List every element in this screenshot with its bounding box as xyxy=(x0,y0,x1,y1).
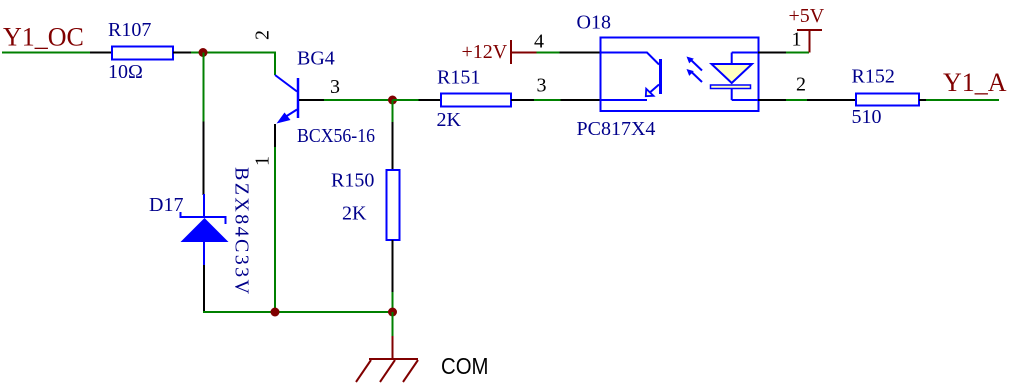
junction emitter-rail xyxy=(271,308,280,317)
resistor R152 xyxy=(856,94,919,106)
svg-text:2: 2 xyxy=(252,30,274,40)
svg-text:BG4: BG4 xyxy=(297,48,335,70)
svg-text:Y1_OC: Y1_OC xyxy=(3,23,84,52)
resistor R151 xyxy=(441,94,511,107)
zener diode D17 xyxy=(181,194,229,265)
svg-text:COM: COM xyxy=(441,353,489,379)
svg-text:D17: D17 xyxy=(149,194,183,216)
svg-text:3: 3 xyxy=(330,76,340,98)
power +12V bar xyxy=(510,40,512,64)
svg-text:10Ω: 10Ω xyxy=(108,61,143,83)
wire R151 to opto pin 3 xyxy=(511,99,534,101)
wire node B to R151 xyxy=(393,99,419,101)
wire node A down to D17 xyxy=(203,53,205,122)
wire base pin 3 xyxy=(299,99,324,101)
wire rail to ground xyxy=(392,312,394,336)
svg-text:BCX56-16: BCX56-16 xyxy=(297,125,375,147)
svg-text:1: 1 xyxy=(792,29,802,51)
ground COM xyxy=(356,359,418,382)
resistor R107 xyxy=(112,47,173,60)
power +5V bar xyxy=(809,30,811,53)
wire R107 to node A xyxy=(173,52,191,54)
svg-text:4: 4 xyxy=(534,31,544,53)
svg-text:2: 2 xyxy=(796,74,806,96)
svg-text:R152: R152 xyxy=(852,66,895,88)
resistor R150 xyxy=(387,170,400,240)
wire Y1_OC to R107 xyxy=(2,52,90,54)
optocoupler O18 box xyxy=(601,38,759,112)
svg-text:3: 3 xyxy=(537,75,547,97)
svg-text:PC817X4: PC817X4 xyxy=(577,118,656,140)
wire emitter pin 1 xyxy=(274,124,276,147)
svg-text:2K: 2K xyxy=(437,109,462,131)
node B junction xyxy=(388,96,397,105)
svg-text:R151: R151 xyxy=(437,67,480,89)
svg-text:O18: O18 xyxy=(577,12,611,34)
svg-text:2K: 2K xyxy=(342,203,367,225)
opto phototransistor xyxy=(601,53,661,101)
opto light arrows xyxy=(687,57,703,83)
svg-text:+5V: +5V xyxy=(789,5,825,27)
bottom rail xyxy=(203,311,393,313)
wire R150 to bottom rail xyxy=(392,240,394,292)
junction R150-rail xyxy=(388,308,397,317)
opto LED xyxy=(711,53,759,101)
svg-text:510: 510 xyxy=(852,106,882,128)
svg-text:1: 1 xyxy=(252,156,274,166)
svg-text:R107: R107 xyxy=(108,19,151,41)
wire D17 to bottom rail xyxy=(203,265,205,312)
wire pin 2 to R152 xyxy=(758,99,786,101)
node A junction xyxy=(199,48,208,57)
wire node B down to R150 xyxy=(392,100,394,122)
svg-text:+12V: +12V xyxy=(462,41,508,63)
svg-text:BZX84C33V: BZX84C33V xyxy=(231,167,253,296)
svg-text:R150: R150 xyxy=(331,170,374,192)
svg-text:Y1_A: Y1_A xyxy=(943,68,1007,97)
wire collector pin 2 xyxy=(274,52,276,76)
transistor BG4 xyxy=(275,75,298,124)
wire R152 to Y1_A xyxy=(919,99,926,101)
wire pin 1 to +5V xyxy=(758,52,786,54)
